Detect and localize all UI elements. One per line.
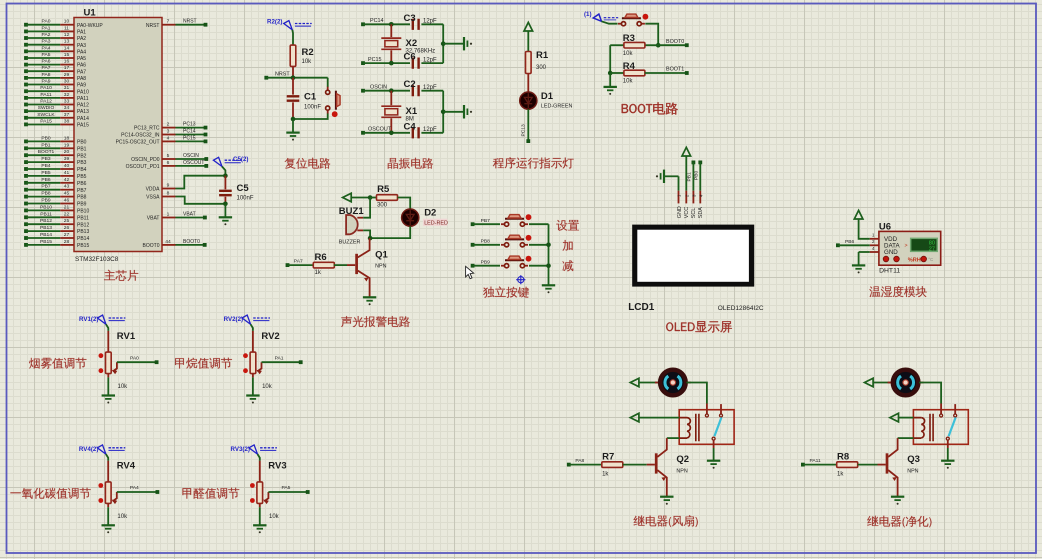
svg-text:PB0: PB0 xyxy=(77,140,87,146)
ground below RV1 xyxy=(102,374,115,404)
svg-text:300: 300 xyxy=(536,65,547,71)
svg-text:R2(2): R2(2) xyxy=(267,19,282,26)
pin 18 / net PB0 wire xyxy=(24,135,87,145)
svg-text:PC13: PC13 xyxy=(183,122,196,128)
pin 4 / net PC15 wire xyxy=(116,135,208,145)
svg-text:R3: R3 xyxy=(623,33,635,44)
svg-text:PB8: PB8 xyxy=(77,195,87,201)
svg-text:R5: R5 xyxy=(377,184,390,195)
svg-text:NRST: NRST xyxy=(146,23,160,29)
power terminal RV2(2) xyxy=(224,315,270,331)
svg-text:C5(2): C5(2) xyxy=(233,156,248,163)
wire R5 to D2 xyxy=(398,198,411,210)
svg-text:RV3: RV3 xyxy=(268,461,286,472)
svg-text:32: 32 xyxy=(64,92,70,98)
svg-text:SWDIO: SWDIO xyxy=(38,105,55,111)
node PB7 terminal xyxy=(471,218,490,226)
pin 2 / net PC13 wire xyxy=(134,122,207,132)
wire right bus xyxy=(441,91,446,133)
svg-text:%RH: %RH xyxy=(908,257,921,263)
svg-text:STM32F103C8: STM32F103C8 xyxy=(75,256,119,263)
wire NRST to button xyxy=(327,78,329,87)
svg-text:PB3: PB3 xyxy=(41,156,51,162)
pin 43 / net PB7 wire xyxy=(24,184,87,194)
capacitor C2 xyxy=(404,79,444,96)
svg-text:D1: D1 xyxy=(541,91,554,102)
caption plus key xyxy=(562,240,572,251)
svg-text:PA4: PA4 xyxy=(42,45,51,51)
caption set key xyxy=(556,220,579,231)
svg-text:10k: 10k xyxy=(118,384,129,390)
relay relay-Q2 xyxy=(679,404,734,449)
svg-text:37: 37 xyxy=(64,112,70,118)
svg-text:PA7: PA7 xyxy=(77,69,86,75)
resistor R4 xyxy=(610,61,645,85)
svg-text:VCC: VCC xyxy=(684,207,690,218)
svg-text:GND: GND xyxy=(677,206,683,218)
ground below relay-Q2 switch xyxy=(707,448,720,469)
capacitor C1 xyxy=(287,78,322,119)
svg-text:33: 33 xyxy=(64,99,70,105)
svg-text:BOOT1: BOOT1 xyxy=(38,149,55,155)
wire R8 to Q3 base xyxy=(858,464,886,466)
svg-text:1k: 1k xyxy=(315,270,322,276)
power terminal RV4(2) xyxy=(79,445,125,461)
svg-text:NPN: NPN xyxy=(676,468,687,474)
svg-text:C5: C5 xyxy=(237,183,250,194)
ground below Q2 xyxy=(660,497,673,505)
svg-text:OSCIN: OSCIN xyxy=(183,153,199,159)
wire R3 to R4 left bus xyxy=(608,45,613,75)
pin 4 GND xyxy=(859,246,899,256)
pin 15 / net PA5 wire xyxy=(24,52,86,62)
svg-text:PA13: PA13 xyxy=(77,109,89,115)
svg-text:PC15-OSC32_OUT: PC15-OSC32_OUT xyxy=(116,140,160,146)
svg-text:C1: C1 xyxy=(304,92,317,103)
svg-text:Q3: Q3 xyxy=(907,454,920,465)
svg-text:PC15: PC15 xyxy=(183,135,196,141)
svg-text:2: 2 xyxy=(167,122,170,128)
node OSCOUT terminal xyxy=(361,127,392,135)
capacitor C6 xyxy=(404,52,444,69)
pin 31 / net PA10 wire xyxy=(24,85,89,95)
svg-text:10k: 10k xyxy=(117,514,128,520)
svg-text:PA7: PA7 xyxy=(294,258,303,264)
power terminal R2(2) xyxy=(267,19,312,46)
BOOT button xyxy=(618,14,648,26)
wire R6 to Q1 base xyxy=(334,264,355,266)
wire OSCOUT row xyxy=(363,131,410,136)
resistor R5 xyxy=(370,184,397,208)
svg-text:1k: 1k xyxy=(837,471,844,477)
svg-text:12pF: 12pF xyxy=(423,57,437,63)
power arrow left of relay-Q2 coil xyxy=(630,413,679,422)
pin 8 VSSA wire xyxy=(146,191,225,204)
svg-text:10k: 10k xyxy=(623,51,634,57)
svg-text:°C: °C xyxy=(928,257,933,262)
svg-text:11: 11 xyxy=(64,25,69,31)
svg-text:PC15: PC15 xyxy=(368,57,382,63)
svg-text:NPN: NPN xyxy=(907,468,918,474)
svg-text:OSCOUT_PD1: OSCOUT_PD1 xyxy=(126,164,160,170)
node PC14 terminal xyxy=(361,18,383,26)
svg-text:PA10: PA10 xyxy=(40,85,52,91)
wire coil to Q3 collector xyxy=(898,437,914,439)
node VSSA junction xyxy=(223,202,228,207)
svg-text:R2: R2 xyxy=(302,47,314,58)
caption methane adjust xyxy=(175,358,232,369)
ground below Q1 xyxy=(363,297,376,305)
svg-text:21: 21 xyxy=(64,204,70,210)
svg-text:DHT11: DHT11 xyxy=(879,267,900,274)
svg-text:30: 30 xyxy=(64,79,70,85)
capacitor C3 xyxy=(404,13,444,30)
wire OSCIN row xyxy=(363,88,410,93)
power terminal RV1(2) xyxy=(79,315,125,331)
svg-text:PB9: PB9 xyxy=(41,198,51,204)
potentiometer RV1 xyxy=(99,331,136,390)
wire R7 to Q2 base xyxy=(623,464,655,466)
svg-text:BOOT0: BOOT0 xyxy=(143,243,160,249)
power terminal RV3(2) xyxy=(231,445,277,461)
svg-text:PA1: PA1 xyxy=(42,25,51,31)
svg-text:LED-GREEN: LED-GREEN xyxy=(541,104,573,110)
svg-text:Q2: Q2 xyxy=(676,454,689,465)
pin 26 / net PB13 wire xyxy=(24,225,89,235)
caption main chip xyxy=(104,270,138,281)
svg-text:BOOT0: BOOT0 xyxy=(666,39,684,45)
svg-text:PA5: PA5 xyxy=(282,485,291,491)
svg-text:PA9: PA9 xyxy=(42,79,51,85)
power arrow left of relay-Q3 coil xyxy=(890,413,914,422)
capacitor C5 xyxy=(219,176,254,204)
svg-text:PA11: PA11 xyxy=(40,92,52,98)
svg-text:19: 19 xyxy=(64,142,70,148)
svg-text:25: 25 xyxy=(64,218,70,224)
svg-text:PB10: PB10 xyxy=(77,209,89,215)
resistor R7 xyxy=(567,452,623,478)
svg-text:BOOT0: BOOT0 xyxy=(183,239,200,245)
svg-text:PB7: PB7 xyxy=(481,218,491,224)
svg-text:PA8: PA8 xyxy=(42,72,51,78)
transistor Q3 xyxy=(887,438,920,497)
svg-text:6: 6 xyxy=(167,160,170,166)
svg-text:PA6: PA6 xyxy=(77,63,86,69)
power arrow above U6 xyxy=(854,210,870,238)
svg-text:PB5: PB5 xyxy=(41,170,51,176)
svg-text:PC14: PC14 xyxy=(183,129,196,135)
svg-text:PB1: PB1 xyxy=(41,142,51,148)
svg-text:RV2: RV2 xyxy=(261,331,279,342)
ground right of X2 xyxy=(443,37,472,50)
pin 17 / net PA7 wire xyxy=(24,65,86,75)
transistor Q2 xyxy=(656,438,689,497)
power arrow above R1 xyxy=(524,22,533,51)
key button PB9 xyxy=(501,256,531,268)
pin 9 VDDA wire xyxy=(146,176,226,193)
svg-text:40: 40 xyxy=(64,163,70,169)
svg-text:10k: 10k xyxy=(262,384,273,390)
wire PB9 to key xyxy=(473,265,500,267)
origin marker xyxy=(516,275,525,284)
svg-text:PA15: PA15 xyxy=(40,119,52,125)
ground right of X1 xyxy=(443,105,472,119)
ground below R4 bus xyxy=(604,73,617,95)
svg-text:PB6: PB6 xyxy=(41,177,51,183)
svg-text:12: 12 xyxy=(64,32,70,38)
LED D2 xyxy=(402,208,448,227)
key button PB8 xyxy=(501,235,531,247)
pin 1 / net VBAT wire xyxy=(147,212,207,222)
svg-text:PA0: PA0 xyxy=(130,355,139,361)
pin 14 / net PA4 wire xyxy=(24,45,86,55)
svg-text:1: 1 xyxy=(167,212,170,218)
wire PB7 to key xyxy=(473,223,500,225)
svg-text:PA4: PA4 xyxy=(77,49,86,55)
power terminal C5(2) xyxy=(213,156,248,176)
power arrow left of R5 xyxy=(343,193,371,202)
node PB9 terminal xyxy=(471,259,490,267)
svg-text:PB11: PB11 xyxy=(77,215,89,221)
transistor Q1 xyxy=(357,238,389,297)
resistor R2 xyxy=(290,45,313,78)
wire key PB9 to bus xyxy=(529,265,549,267)
node PB0 terminal / wire SDA pin 4 xyxy=(694,161,704,204)
svg-text:RV1(2): RV1(2) xyxy=(79,316,99,323)
svg-text:PA15: PA15 xyxy=(77,123,89,129)
pin 42 / net PB6 wire xyxy=(24,177,87,187)
svg-text:PB8: PB8 xyxy=(41,191,51,197)
svg-text:Q1: Q1 xyxy=(375,250,388,261)
capacitor C4 xyxy=(404,121,444,138)
pin 13 / net PA3 wire xyxy=(24,39,86,49)
svg-text:PA1: PA1 xyxy=(77,30,86,36)
wire RV3 wiper to PA5 terminal xyxy=(268,485,309,494)
caption relay purifier xyxy=(867,516,931,528)
svg-text:PC14-OSC32_IN: PC14-OSC32_IN xyxy=(121,133,160,139)
ground left of LCD1 xyxy=(656,170,679,183)
svg-text:13: 13 xyxy=(64,39,70,45)
svg-text:PA2: PA2 xyxy=(42,32,51,38)
wire right bus xyxy=(441,24,446,63)
wire key PB8 to bus xyxy=(529,244,549,246)
svg-text:PA4: PA4 xyxy=(130,485,139,491)
resistor R6 xyxy=(286,252,335,276)
LCD1 OLED display body xyxy=(628,225,764,313)
svg-text:28: 28 xyxy=(64,239,70,245)
pin 30 / net PA9 wire xyxy=(24,79,86,89)
svg-text:SWCLK: SWCLK xyxy=(37,112,55,118)
pin 29 / net PA8 wire xyxy=(24,72,86,82)
svg-text:PB13: PB13 xyxy=(40,225,52,231)
svg-text:PA8: PA8 xyxy=(575,458,584,464)
node R5 junction xyxy=(368,195,373,200)
pin 16 / net PA6 wire xyxy=(24,59,86,69)
ground below RV3 xyxy=(253,503,266,533)
node BOOT0 junction xyxy=(656,43,661,48)
svg-text:17: 17 xyxy=(64,65,70,71)
LED D1 xyxy=(520,91,573,110)
svg-text:PA6: PA6 xyxy=(42,59,51,65)
svg-text:VBAT: VBAT xyxy=(147,216,160,222)
svg-text:PA5: PA5 xyxy=(42,52,51,58)
svg-text:NPN: NPN xyxy=(375,264,386,270)
svg-text:PA0-WKUP: PA0-WKUP xyxy=(77,23,103,29)
svg-text:8: 8 xyxy=(167,191,170,197)
caption carbon monoxide adjust xyxy=(10,488,90,499)
wire keys common bus xyxy=(546,224,551,285)
svg-text:9: 9 xyxy=(167,183,170,189)
svg-text:PA7: PA7 xyxy=(42,65,51,71)
wire buzzer top to R5 node xyxy=(363,198,370,218)
svg-text:SDA: SDA xyxy=(698,207,704,218)
node NRST xyxy=(264,71,327,80)
resistor R1 xyxy=(526,50,549,92)
caption BOOT circuit xyxy=(622,102,678,114)
svg-text:27: 27 xyxy=(929,246,935,252)
svg-text:VSSA: VSSA xyxy=(146,195,160,201)
svg-text:PA14: PA14 xyxy=(77,116,89,122)
pin 41 / net PB5 wire xyxy=(24,170,87,180)
potentiometer RV4 xyxy=(98,461,135,520)
svg-text:PB3: PB3 xyxy=(77,160,87,166)
pin 21 / net PB10 wire xyxy=(24,204,89,214)
svg-text:22: 22 xyxy=(64,211,70,217)
pin 28 / net PB15 wire xyxy=(24,239,89,249)
ground below keys bus xyxy=(542,285,555,293)
reset button xyxy=(326,87,341,117)
svg-text:LED-RED: LED-RED xyxy=(424,221,448,227)
svg-text:100nF: 100nF xyxy=(304,105,321,111)
svg-text:PA8: PA8 xyxy=(77,76,86,82)
svg-text:C4: C4 xyxy=(404,121,417,132)
ground below U6 xyxy=(852,252,865,273)
pin 3 / net PC14 wire xyxy=(121,129,207,139)
svg-text:NRST: NRST xyxy=(183,19,197,25)
pin 1 VDD xyxy=(870,233,898,243)
svg-text:PB4: PB4 xyxy=(41,163,51,169)
svg-text:PB6: PB6 xyxy=(845,239,855,245)
U6 buttons and %RH label xyxy=(883,256,933,263)
wire PB8 to key xyxy=(473,244,500,246)
svg-text:PB6: PB6 xyxy=(77,181,87,187)
ground below C5 xyxy=(219,204,232,226)
svg-text:10: 10 xyxy=(64,19,70,25)
wire coil to Q2 collector xyxy=(667,437,679,439)
svg-text:C3: C3 xyxy=(404,13,416,24)
svg-text:RV4(2): RV4(2) xyxy=(79,446,99,453)
caption formaldehyde adjust xyxy=(182,488,239,499)
svg-text:PB2: PB2 xyxy=(77,153,87,159)
svg-text:1k: 1k xyxy=(602,471,609,477)
svg-text:PB9: PB9 xyxy=(481,259,491,265)
svg-text:41: 41 xyxy=(64,170,70,176)
pin 46 / net PB9 wire xyxy=(24,198,87,208)
wire PC15 row xyxy=(363,61,410,66)
microcontroller U1 STM32F103C8 xyxy=(74,8,162,264)
svg-text:R6: R6 xyxy=(315,252,327,263)
svg-text:15: 15 xyxy=(64,52,70,58)
svg-text:BUZZER: BUZZER xyxy=(339,239,361,245)
crystal X1 xyxy=(381,91,418,133)
sensor U6 DHT11 body xyxy=(879,221,941,274)
pin 32 / net PA11 wire xyxy=(24,92,89,102)
wire D2 to collector node xyxy=(370,226,410,238)
wire button to BOOT0 node xyxy=(645,24,658,46)
pin 45 / net PB8 wire xyxy=(24,191,87,201)
svg-text:R4: R4 xyxy=(623,61,636,72)
svg-text:PA12: PA12 xyxy=(77,103,89,109)
svg-text:31: 31 xyxy=(64,85,70,91)
pin 44 / net BOOT0 wire xyxy=(143,239,207,249)
ground below relay-Q3 switch xyxy=(941,448,954,469)
resistor R3 xyxy=(610,33,658,57)
svg-text:5: 5 xyxy=(167,153,170,159)
svg-text:PB7: PB7 xyxy=(41,184,51,190)
node OSCIN terminal xyxy=(361,85,387,93)
relay relay-Q3 xyxy=(913,404,968,449)
wire buzzer bottom to collector node xyxy=(363,230,370,238)
svg-text:20: 20 xyxy=(64,149,70,155)
svg-text:16: 16 xyxy=(64,59,70,65)
svg-text:39: 39 xyxy=(64,156,70,162)
svg-text:PB5: PB5 xyxy=(77,174,87,180)
node PB1 terminal / wire SCL pin 3 xyxy=(687,161,697,204)
svg-text:PA5: PA5 xyxy=(77,56,86,62)
U6 green readout xyxy=(905,238,939,253)
svg-text:RV2(2): RV2(2) xyxy=(224,316,244,323)
svg-text:PB12: PB12 xyxy=(40,218,52,224)
ground below C1 xyxy=(286,119,299,141)
svg-text:PB1: PB1 xyxy=(77,146,87,152)
svg-text:(1): (1) xyxy=(584,11,592,18)
svg-text:C6: C6 xyxy=(404,52,416,63)
pin 25 / net PB12 wire xyxy=(24,218,89,228)
svg-text:14: 14 xyxy=(64,45,70,51)
svg-text:PB13: PB13 xyxy=(77,229,89,235)
svg-text:GND: GND xyxy=(884,249,898,256)
wire button to C1 bottom xyxy=(291,114,328,122)
caption reset circuit xyxy=(285,158,331,169)
wire key PB7 to bus xyxy=(529,223,549,225)
wire BOOT0 to terminal xyxy=(658,39,689,47)
svg-text:OSCOUT: OSCOUT xyxy=(368,127,392,133)
svg-text:BOOT1: BOOT1 xyxy=(666,66,684,72)
ground below RV2 xyxy=(246,374,259,404)
svg-text:U6: U6 xyxy=(879,221,891,232)
pin 11 / net PA1 wire xyxy=(24,25,86,35)
potentiometer RV3 xyxy=(250,461,287,520)
svg-text:PA9: PA9 xyxy=(77,83,86,89)
svg-text:PB15: PB15 xyxy=(40,239,52,245)
svg-text:4: 4 xyxy=(167,135,170,141)
node VDDA junction xyxy=(223,173,228,178)
svg-text:34: 34 xyxy=(64,105,70,111)
motor for Q3 xyxy=(865,370,924,396)
svg-text:10k: 10k xyxy=(302,59,313,65)
pin 33 / net PA12 wire xyxy=(24,99,89,109)
svg-text:PA11: PA11 xyxy=(810,458,822,464)
pin 38 / net PA15 wire xyxy=(24,119,89,129)
pin 27 / net PB14 wire xyxy=(24,232,89,242)
svg-text:38: 38 xyxy=(64,119,70,125)
key button PB7 xyxy=(501,214,531,226)
pin 19 / net PB1 wire xyxy=(24,142,87,152)
svg-text:R7: R7 xyxy=(602,452,614,463)
svg-text:LCD1: LCD1 xyxy=(628,302,655,313)
caption relay fan xyxy=(634,515,698,527)
svg-text:12pF: 12pF xyxy=(423,127,437,133)
